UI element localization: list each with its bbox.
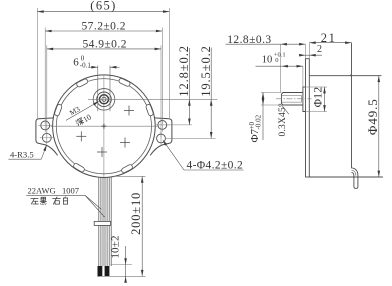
right ear upper hole	[158, 121, 167, 130]
svg-text:12.8±0.2: 12.8±0.2	[177, 45, 191, 97]
dimension 57.2±0.2	[44, 28, 46, 125]
motor front view: outer housing circle	[53, 75, 156, 178]
svg-text:10±2: 10±2	[109, 235, 121, 258]
svg-text:0: 0	[275, 57, 278, 64]
M3 thread circle (bold)	[100, 95, 109, 104]
housing crimp tab at 64.8 deg	[118, 78, 131, 87]
shaft centerline	[276, 98, 312, 100]
left ear lower hole	[42, 133, 51, 142]
shaft hub outer circle (boss)	[93, 89, 115, 111]
vertical centerline of front view	[103, 75, 105, 177]
svg-text:-0.02: -0.02	[254, 114, 262, 129]
face cross mark at 125.0,142.5	[120, 138, 130, 148]
right ear lower hole	[157, 134, 166, 143]
svg-text:0.3X45°: 0.3X45°	[277, 103, 288, 136]
dimension 200±10 (wire length)	[112, 175, 146, 177]
dimension 21 (body depth)	[308, 43, 310, 59]
svg-text:10: 10	[262, 54, 273, 65]
M3 hole inner circle	[102, 97, 106, 101]
M3 tapped hole lines	[282, 94, 302, 96]
side view: bearing boss	[303, 87, 306, 112]
shaft width extension line left	[97, 66, 99, 112]
label left-black right-white	[31, 198, 38, 204]
svg-text:6: 6	[73, 56, 79, 68]
svg-text:Φ49.5: Φ49.5	[365, 98, 380, 135]
wire black tip right	[105, 266, 110, 277]
dimension 6 0/-0.1 (shaft width)	[88, 66, 98, 68]
housing crimp tab at 160.6 deg	[54, 104, 62, 117]
housing crimp tab at 19.4 deg	[145, 104, 153, 117]
dimension 12.8±0.3 (shaft protrusion)	[280, 44, 282, 92]
left lower hole centermark v	[46, 131, 48, 145]
svg-text:22AWG 1007: 22AWG 1007	[28, 186, 80, 196]
face cross mark at 129.0,110.5	[124, 106, 134, 116]
dimension 10 +0.1/0 (shaft length)	[302, 66, 304, 87]
right lower hole centermark v	[160, 131, 162, 145]
dimension 19.5±0.2 (hub to lower hole)	[166, 137, 216, 139]
right upper hole centermark v	[161, 118, 163, 132]
shaft width extension line right	[109, 66, 111, 112]
face cross mark at 102.0,152.0	[97, 147, 107, 157]
hub center reference line	[88, 98, 217, 100]
svg-text:54.9±0.2: 54.9±0.2	[82, 38, 126, 50]
svg-text:21: 21	[321, 31, 337, 45]
left upper hole centermark h	[38, 124, 52, 126]
body top edge + extension	[309, 75, 381, 77]
left lower hole centermark h	[40, 137, 54, 139]
svg-text:4-R3.5: 4-R3.5	[10, 149, 34, 159]
left ear upper hole	[41, 121, 50, 130]
svg-text:12.8±0.3: 12.8±0.3	[227, 34, 271, 46]
left mounting ear outline	[36, 118, 58, 155]
housing crimp tab at 239.0 deg	[73, 163, 85, 173]
svg-text:2: 2	[317, 44, 322, 55]
svg-text:19.5±0.2: 19.5±0.2	[199, 45, 213, 97]
dimension 54.9±0.2	[46, 45, 48, 136]
dimension 2 (plate thickness)	[300, 54, 323, 56]
dimension 10±2 (stripped end)	[111, 264, 133, 266]
horizontal centerline of front view	[51, 125, 158, 127]
dimension Φ49.5 (body dia)	[378, 76, 380, 177]
svg-text:-0.1: -0.1	[80, 61, 92, 69]
lead wire bundle	[99, 177, 111, 266]
svg-text:200±10: 200±10	[129, 192, 143, 235]
svg-text:M3: M3	[68, 104, 82, 117]
housing crimp tab at 298.5 deg	[121, 164, 133, 174]
svg-text:57.2±0.2: 57.2±0.2	[81, 20, 125, 32]
body rear top corner arc	[349, 73, 352, 76]
label M3 depth 10 with leader to hub	[66, 102, 98, 120]
face cross mark at 81.3,136.3	[76, 131, 86, 141]
side view: mounting plate	[306, 59, 310, 177]
extension line left for (65)	[36, 8, 38, 119]
svg-text:Φ12: Φ12	[313, 87, 325, 108]
right mounting ear outline	[150, 118, 172, 155]
svg-text:(65): (65)	[90, 0, 116, 13]
dimension Φ7 0/-0.02 (shaft dia)	[261, 92, 282, 94]
lead wire exiting rear of body	[352, 168, 358, 189]
left upper hole centermark v	[44, 118, 46, 132]
dimension Φ12 (boss dia)	[304, 86, 328, 88]
chamfer label 0.3X45°	[282, 106, 289, 115]
body bottom edge + extension	[309, 176, 383, 178]
wire lacing band	[94, 221, 110, 225]
center point tick	[101, 125, 106, 127]
dimension (65)	[37, 11, 169, 13]
shaft circle	[97, 92, 112, 107]
wire black tip left	[98, 266, 103, 277]
side view: shaft (with end chamfers)	[282, 93, 303, 106]
svg-text:4-Φ4.2±0.2: 4-Φ4.2±0.2	[187, 159, 244, 171]
extension line right for (65)	[168, 8, 170, 119]
right upper hole centermark h	[155, 124, 169, 126]
svg-text:Φ7: Φ7	[249, 128, 261, 142]
body rear edge + 21 extension	[351, 43, 353, 169]
leader lines to wires	[85, 195, 101, 209]
dimension 12.8±0.2 (hub to upper hole)	[167, 124, 192, 126]
motor front view: inner rim circle	[56, 79, 151, 174]
housing crimp tab at 116.6 deg	[76, 78, 89, 87]
